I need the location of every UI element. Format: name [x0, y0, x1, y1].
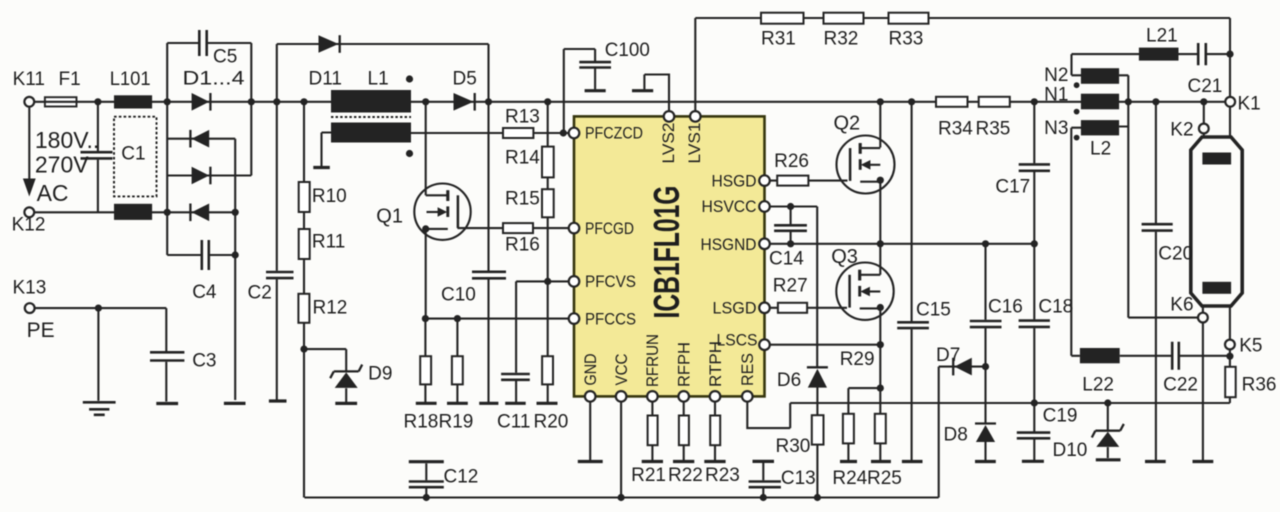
svg-text:C4: C4 [192, 282, 217, 303]
svg-text:N1: N1 [1044, 85, 1068, 106]
svg-text:K1: K1 [1238, 94, 1261, 115]
svg-text:LSGD: LSGD [713, 300, 757, 318]
svg-text:C15: C15 [916, 300, 951, 321]
svg-text:Q2: Q2 [834, 113, 861, 135]
svg-text:R34: R34 [938, 119, 973, 140]
svg-text:VCC: VCC [613, 353, 631, 385]
svg-text:R19: R19 [439, 412, 474, 433]
svg-text:D6: D6 [777, 370, 801, 391]
svg-text:R18: R18 [404, 412, 439, 433]
svg-text:R13: R13 [505, 107, 540, 128]
svg-text:R26: R26 [774, 151, 809, 172]
svg-text:RTPH: RTPH [707, 341, 725, 387]
svg-text:R36: R36 [1242, 375, 1277, 396]
svg-text:D9: D9 [368, 364, 392, 385]
svg-text:R35: R35 [976, 119, 1011, 140]
svg-text:270V: 270V [35, 152, 89, 178]
svg-text:C13: C13 [781, 468, 816, 489]
svg-text:N2: N2 [1044, 65, 1068, 86]
svg-text:LVS2: LVS2 [660, 123, 678, 164]
svg-text:C100: C100 [605, 40, 650, 61]
svg-text:R33: R33 [889, 29, 924, 50]
svg-text:D8: D8 [944, 425, 968, 446]
svg-text:K6: K6 [1170, 295, 1193, 316]
svg-text:PFCZCD: PFCZCD [585, 125, 643, 143]
svg-text:R29: R29 [840, 349, 875, 370]
svg-text:C22: C22 [1163, 375, 1198, 396]
svg-text:HSGD: HSGD [712, 172, 757, 190]
svg-text:C14: C14 [769, 249, 804, 270]
svg-text:Q1: Q1 [376, 206, 403, 228]
svg-text:D7: D7 [936, 345, 960, 366]
svg-text:K12: K12 [12, 215, 46, 236]
svg-text:C18: C18 [1038, 297, 1073, 318]
svg-text:D11: D11 [309, 69, 342, 90]
svg-text:PFCCS: PFCCS [585, 310, 636, 328]
svg-text:C11: C11 [497, 412, 530, 433]
svg-text:C5: C5 [213, 47, 237, 68]
svg-text:F1: F1 [59, 69, 81, 90]
svg-text:L22: L22 [1082, 375, 1114, 396]
svg-text:HSVCC: HSVCC [702, 198, 757, 216]
svg-text:180V..: 180V.. [35, 127, 99, 153]
svg-text:C16: C16 [988, 297, 1023, 318]
svg-text:N3: N3 [1044, 118, 1068, 139]
svg-text:R30: R30 [776, 436, 811, 457]
svg-text:R27: R27 [773, 276, 808, 297]
svg-text:L2: L2 [1090, 139, 1111, 160]
svg-text:R11: R11 [312, 231, 345, 252]
svg-text:K13: K13 [13, 278, 47, 299]
svg-text:D1...4: D1...4 [183, 69, 246, 90]
svg-text:R20: R20 [534, 412, 569, 433]
svg-text:R23: R23 [705, 465, 740, 486]
svg-text:C21: C21 [1188, 76, 1223, 97]
svg-text:PFCVS: PFCVS [585, 273, 636, 291]
svg-text:R14: R14 [505, 148, 540, 169]
svg-text:C1: C1 [121, 144, 145, 165]
svg-text:R21: R21 [631, 465, 666, 486]
svg-text:AC: AC [37, 180, 69, 206]
svg-text:Q3: Q3 [831, 246, 858, 268]
svg-text:D10: D10 [1053, 440, 1088, 461]
svg-text:L21: L21 [1146, 26, 1178, 47]
svg-text:R24: R24 [832, 468, 867, 489]
svg-text:RFRUN: RFRUN [644, 334, 662, 387]
svg-text:R10: R10 [312, 186, 347, 207]
svg-text:GND: GND [582, 353, 600, 385]
svg-text:C20: C20 [1158, 244, 1193, 265]
svg-text:C12: C12 [444, 467, 479, 488]
svg-text:L101: L101 [110, 69, 151, 90]
svg-text:RES: RES [739, 353, 757, 386]
svg-text:HSGND: HSGND [701, 236, 757, 254]
svg-text:K5: K5 [1239, 336, 1262, 357]
svg-text:C10: C10 [441, 285, 476, 306]
svg-text:R22: R22 [668, 465, 703, 486]
svg-text:PE: PE [27, 319, 55, 342]
svg-text:R32: R32 [824, 29, 859, 50]
svg-text:C3: C3 [192, 351, 216, 372]
svg-text:D5: D5 [453, 69, 477, 90]
svg-text:R16: R16 [505, 235, 540, 256]
svg-text:LVS1: LVS1 [686, 123, 704, 164]
svg-text:K2: K2 [1170, 120, 1193, 141]
svg-text:R25: R25 [867, 468, 902, 489]
svg-text:PFCGD: PFCGD [585, 220, 634, 238]
svg-text:R15: R15 [505, 189, 540, 210]
svg-text:C17: C17 [995, 177, 1030, 198]
svg-text:RFPH: RFPH [676, 342, 694, 387]
svg-text:ICB1FL01G: ICB1FL01G [646, 186, 687, 319]
svg-text:R31: R31 [761, 29, 796, 50]
svg-text:C2: C2 [248, 283, 272, 304]
svg-text:L1: L1 [368, 69, 389, 90]
svg-text:C19: C19 [1043, 406, 1078, 427]
svg-text:K11: K11 [13, 69, 45, 90]
svg-text:R12: R12 [313, 298, 348, 319]
